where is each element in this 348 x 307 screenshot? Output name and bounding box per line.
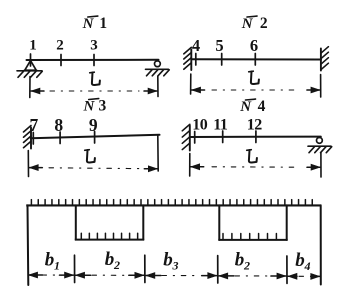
beam 2 right wall support (321, 47, 329, 71)
bottom wall top hatching ticks (31, 200, 312, 205)
beam 4 dim arrow left (191, 164, 204, 170)
svg-text:5: 5 (215, 36, 223, 55)
svg-text:11: 11 (213, 117, 228, 134)
dim chain tick b3|b2 (217, 256, 219, 283)
beam 1 pin support ground hatch (17, 71, 42, 78)
label No.3 (82, 98, 106, 115)
opening 2 bottom hatching ticks (223, 234, 276, 240)
svg-text:2: 2 (56, 38, 64, 54)
beam 4 roller ground hatch (308, 146, 332, 153)
svg-text:b: b (105, 249, 115, 270)
label b3 (163, 250, 178, 273)
dim chain tick b1|b2 (74, 255, 76, 282)
svg-text:2: 2 (113, 258, 120, 272)
beam 1 roller support circle (155, 61, 161, 67)
beam 1 node ticks (31, 54, 95, 66)
svg-text:N: N (82, 16, 95, 32)
beam 4 dim line (212, 166, 299, 168)
svg-text:b: b (235, 250, 245, 271)
beam 1 dim extension right (157, 76, 159, 97)
svg-text:1: 1 (99, 15, 107, 32)
beam 1 dim line (50, 90, 139, 92)
svg-text:b: b (45, 250, 55, 271)
svg-text:8: 8 (54, 115, 63, 135)
label b2 (105, 249, 120, 272)
beam 4 line (190, 136, 321, 138)
svg-text:2: 2 (260, 15, 268, 32)
beam 3 line (31, 135, 160, 139)
dim chain tick b2|b4 (286, 256, 288, 283)
bottom wall right edge (320, 205, 322, 284)
svg-text:9: 9 (89, 115, 98, 135)
beam 2 dim arrow left (192, 87, 205, 93)
beam 3 dim extension left (27, 151, 29, 177)
beam 1 dim extension left (29, 77, 31, 98)
segment b2 dim line (92, 274, 128, 276)
beam 4 dim extension right (320, 153, 322, 178)
opening 1 left edge (75, 205, 77, 239)
segment b4 dim line (299, 275, 308, 277)
beam 3 left wall support (24, 125, 32, 148)
beam 4 dim arrow right (307, 164, 320, 170)
svg-text:N: N (82, 99, 95, 115)
label No.4 (239, 98, 265, 115)
segment b3 dim line (162, 275, 200, 277)
segment b1 arrows (29, 272, 43, 278)
beam 1 pin support (triangle) (24, 61, 36, 71)
segment b4 arrows (288, 273, 297, 279)
segment b2 arrows (76, 272, 91, 278)
segment b2b arrows (219, 273, 234, 279)
beam 4 dim extension left (189, 154, 191, 177)
beam 3 dim arrow left (29, 165, 42, 171)
svg-text:b: b (295, 250, 305, 271)
svg-text:1: 1 (29, 38, 37, 54)
svg-text:3: 3 (172, 258, 179, 272)
dim chain tick b2|b3 (144, 255, 146, 282)
beam 3 dim arrow right (144, 166, 157, 172)
label b2 second (235, 250, 250, 273)
svg-text:1: 1 (54, 258, 60, 272)
svg-text:3: 3 (99, 98, 107, 115)
segment b2b dim line (235, 275, 270, 277)
opening 1 bottom edge (75, 239, 144, 241)
svg-text:N: N (241, 16, 254, 32)
beam 4 roller support circle (317, 138, 323, 144)
svg-text:6: 6 (250, 36, 258, 55)
label b4 (295, 250, 310, 273)
beam 1 roller ground hatch (146, 69, 170, 76)
beam 4 span label L (247, 150, 257, 163)
label b1 (45, 250, 60, 273)
beam 2 dim extension right (320, 75, 322, 98)
segment b1 dim line (42, 274, 62, 276)
beam 3 node numbers 7 8 9 (30, 115, 98, 135)
svg-text:4: 4 (304, 259, 311, 273)
beam 2 node numbers 4 5 6 (192, 36, 258, 55)
beam 2 line (192, 58, 322, 60)
svg-text:b: b (163, 250, 173, 271)
svg-text:4: 4 (258, 98, 266, 115)
beam 4 node numbers 10 11 12 (192, 117, 262, 134)
beam 2 dim line (212, 89, 300, 91)
beam 1 line (27, 59, 159, 61)
beam 4 node ticks (195, 131, 256, 143)
beam 3 free end extension (157, 136, 159, 172)
beam 2 left wall support (184, 47, 192, 70)
beam 3 dim line (49, 167, 139, 170)
svg-text:3: 3 (90, 38, 98, 54)
svg-text:N: N (239, 99, 252, 115)
label No.1 (82, 15, 108, 32)
beam 1 node numbers 1 2 3 (29, 38, 98, 54)
bottom wall left edge (27, 205, 30, 285)
beam 1 span label L (90, 72, 100, 85)
svg-text:12: 12 (247, 117, 263, 134)
beam 2 dim arrow right (307, 87, 320, 93)
beam 3 span label L (85, 150, 95, 163)
opening 2 right edge (286, 205, 288, 240)
segment b3 arrows (146, 273, 161, 279)
beam 1 dim arrow right (144, 88, 157, 94)
bottom wall top chord (26, 204, 321, 206)
beam 3 node ticks (33, 132, 94, 145)
beam 2 node ticks (196, 54, 256, 66)
beam 2 dim extension left (190, 74, 192, 94)
label No.2 (241, 15, 268, 32)
opening 2 left edge (218, 205, 220, 240)
beam 4 left wall support (182, 124, 190, 150)
opening 1 right edge (142, 205, 144, 239)
opening 2 bottom edge (218, 239, 287, 241)
opening 1 bottom hatching ticks (81, 233, 137, 239)
beam 1 dim arrow left (31, 88, 44, 94)
svg-text:2: 2 (243, 258, 250, 272)
svg-text:4: 4 (192, 36, 200, 55)
beam 2 span label L (249, 71, 259, 84)
